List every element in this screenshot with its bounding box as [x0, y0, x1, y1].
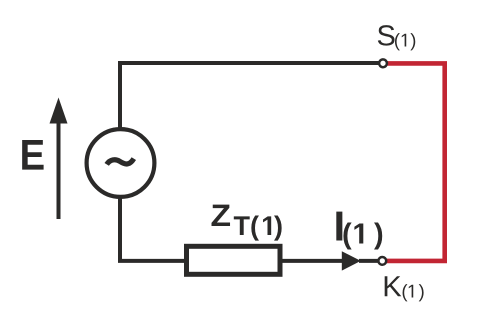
terminal node K(1)	[378, 257, 386, 265]
label Z_T(1)	[212, 205, 282, 241]
EMF direction arrow for E	[50, 98, 68, 220]
AC voltage source E	[87, 129, 155, 197]
wire: impedance Z to current arrow	[283, 259, 343, 263]
terminal node S(1)	[379, 59, 387, 67]
current direction arrow I(1)	[342, 251, 361, 270]
wire: current arrow to terminal K(1)	[359, 259, 378, 263]
wire: source bottom to impedance Z (bottom-left run)	[120, 196, 186, 261]
wire (red): external link from terminal S(1) to terminal K(1)	[386, 63, 445, 261]
label I(1) (current)	[336, 212, 382, 250]
label E (source EMF)	[22, 140, 43, 170]
label K(1)	[385, 276, 424, 301]
wire: source top to node S (top run)	[120, 63, 379, 130]
label S(1)	[378, 25, 415, 50]
impedance Z_T(1)	[187, 246, 281, 274]
